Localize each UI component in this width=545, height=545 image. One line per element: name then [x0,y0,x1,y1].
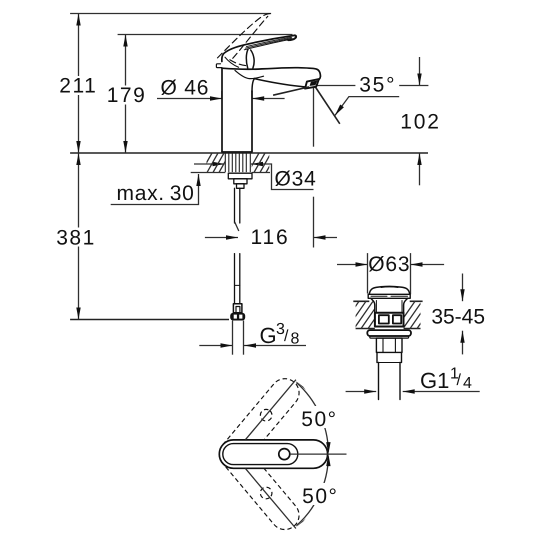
svg-text:35-45: 35-45 [431,305,485,328]
svg-text:179: 179 [107,84,147,107]
svg-text:50°: 50° [302,485,338,508]
svg-text:G1: G1 [420,368,449,393]
svg-text:/: / [284,328,289,345]
svg-text:max. 30: max. 30 [117,182,195,205]
svg-text:Ø63: Ø63 [368,253,410,276]
svg-text:G: G [260,323,277,348]
svg-text:102: 102 [400,110,440,133]
svg-text:116: 116 [251,226,290,249]
svg-text:211: 211 [59,75,97,98]
svg-text:8: 8 [291,331,300,348]
svg-text:50°: 50° [301,408,337,431]
svg-text:381: 381 [56,226,96,249]
svg-text:35°: 35° [359,74,396,97]
svg-text:4: 4 [463,375,472,392]
svg-text:Ø34: Ø34 [275,168,317,191]
svg-text:/: / [457,372,462,389]
svg-text:Ø 46: Ø 46 [161,77,210,100]
